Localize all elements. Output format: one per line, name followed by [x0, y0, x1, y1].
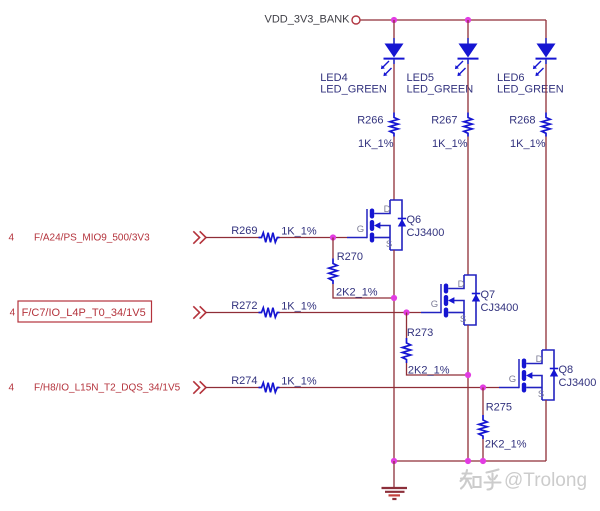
resistor R272: [259, 308, 280, 318]
svg-text:CJ3400: CJ3400: [559, 377, 597, 389]
resistor R266: [390, 113, 398, 137]
junction R270 / Q6 source: [391, 295, 397, 301]
svg-text:1K_1%: 1K_1%: [281, 376, 317, 388]
resistor R275: [479, 388, 487, 462]
label LED4 LED_GREEN: [320, 72, 387, 95]
label Q8 CJ3400: [559, 364, 597, 389]
svg-text:S: S: [538, 389, 544, 400]
junction gate row 2: [403, 309, 409, 315]
svg-text:R268: R268: [509, 114, 535, 126]
resistor R268: [542, 113, 550, 137]
svg-text:G: G: [509, 374, 516, 385]
svg-text:CJ3400: CJ3400: [407, 227, 445, 239]
LED LED4: [381, 38, 405, 76]
svg-text:4: 4: [9, 383, 15, 394]
transistor Q7 CJ3400: [421, 275, 480, 325]
svg-text:R274: R274: [231, 375, 257, 387]
label R272 1K_1%: [231, 300, 317, 313]
svg-text:R270: R270: [337, 251, 363, 263]
svg-text:VDD_3V3_BANK: VDD_3V3_BANK: [265, 14, 351, 26]
LED LED6: [533, 38, 557, 76]
label R270 2K2_1%: [336, 251, 378, 299]
transistor Q6 CJ3400: [347, 200, 406, 250]
label R266 1K_1%: [357, 114, 394, 150]
svg-text:D: D: [384, 204, 391, 215]
svg-text:F/C7/IO_L4P_T0_34/1V5: F/C7/IO_L4P_T0_34/1V5: [22, 307, 146, 319]
net label F/C7/IO_L4P_T0_34/1V5: [10, 301, 152, 322]
label LED6 LED_GREEN: [497, 72, 564, 95]
svg-text:LED_GREEN: LED_GREEN: [320, 83, 387, 95]
svg-text:S: S: [386, 239, 392, 250]
svg-text:G: G: [357, 224, 364, 235]
svg-text:F/A24/PS_MIO9_500/3V3: F/A24/PS_MIO9_500/3V3: [34, 233, 150, 244]
wire port to R274: [206, 387, 259, 389]
wire port to R272: [206, 312, 259, 314]
port F/A24/PS_MIO9_500/3V3: [193, 231, 206, 243]
junction top rail / LED5 anode: [465, 17, 471, 23]
wire LED6 anode: [545, 20, 547, 38]
resistor R270: [329, 238, 394, 299]
wire LED5 cathode: [467, 64, 469, 113]
svg-text:R266: R266: [357, 114, 383, 126]
svg-text:2K2_1%: 2K2_1%: [485, 439, 527, 451]
watermark: [461, 470, 588, 492]
net label F/A24/PS_MIO9_500/3V3: [9, 233, 151, 244]
port F/C7/IO_L4P_T0_34/1V5: [193, 306, 206, 318]
junction GND rail / Q7 source: [465, 458, 471, 464]
svg-text:R275: R275: [486, 401, 512, 413]
svg-text:Q6: Q6: [407, 214, 422, 226]
wire port to R269: [206, 237, 259, 239]
svg-text:R273: R273: [407, 327, 433, 339]
transistor Q8 CJ3400: [499, 350, 558, 400]
junction R273 / Q7 source: [465, 372, 471, 378]
junction GND rail / ground tap: [391, 458, 397, 464]
wire top rail: [361, 19, 547, 21]
junction gate row 3: [480, 384, 486, 390]
wire R272 to gate: [280, 312, 422, 314]
wire R268 to Q8 drain: [545, 137, 547, 351]
junction GND rail / R275: [480, 458, 486, 464]
wire R274 to gate: [280, 387, 500, 389]
svg-text:1K_1%: 1K_1%: [432, 138, 468, 150]
svg-text:CJ3400: CJ3400: [481, 302, 519, 314]
svg-text:1K_1%: 1K_1%: [281, 301, 317, 313]
junction top rail / LED4 anode: [391, 17, 397, 23]
svg-text:LED_GREEN: LED_GREEN: [497, 83, 564, 95]
svg-text:LED4: LED4: [320, 72, 348, 84]
svg-text:2K2_1%: 2K2_1%: [336, 287, 378, 299]
terminal VDD_3V3_BANK: [352, 16, 360, 24]
wire GND rail: [394, 460, 546, 462]
svg-text:F/H8/IO_L15N_T2_DQS_34/1V5: F/H8/IO_L15N_T2_DQS_34/1V5: [34, 383, 181, 394]
label R267 1K_1%: [431, 114, 468, 150]
svg-text:G: G: [431, 299, 438, 310]
wire Q6 source to GND rail: [393, 250, 395, 461]
svg-text:LED5: LED5: [407, 72, 435, 84]
svg-text:R269: R269: [231, 225, 257, 237]
label R274 1K_1%: [231, 375, 317, 388]
resistor R269: [259, 233, 280, 243]
svg-text:4: 4: [10, 308, 16, 319]
svg-text:1K_1%: 1K_1%: [358, 138, 394, 150]
svg-text:LED_GREEN: LED_GREEN: [407, 83, 474, 95]
port F/H8/IO_L15N_T2_DQS_34/1V5: [193, 381, 206, 393]
resistor R273: [402, 313, 468, 376]
resistor R274: [259, 383, 280, 393]
wire LED4 anode: [393, 20, 395, 38]
svg-text:@Trolong: @Trolong: [504, 470, 587, 491]
svg-text:4: 4: [9, 233, 15, 244]
label R269 1K_1%: [231, 225, 317, 238]
label Q7 CJ3400: [481, 289, 519, 314]
LED LED5: [455, 38, 479, 76]
label R275 2K2_1%: [485, 401, 527, 450]
svg-text:2K2_1%: 2K2_1%: [408, 365, 450, 377]
wire Q7 source to GND rail: [467, 325, 469, 461]
label R268 1K_1%: [509, 114, 546, 150]
svg-text:R267: R267: [431, 114, 457, 126]
label LED5 LED_GREEN: [407, 72, 474, 95]
label Q6 CJ3400: [407, 214, 445, 239]
wire LED5 anode: [467, 20, 469, 38]
wire R267 to Q7 drain: [467, 137, 469, 276]
junction gate row 1: [330, 234, 336, 240]
svg-text:S: S: [460, 314, 466, 325]
wire R269 to gate: [280, 237, 348, 239]
svg-text:Q8: Q8: [559, 364, 574, 376]
svg-text:1K_1%: 1K_1%: [281, 226, 317, 238]
svg-text:Q7: Q7: [481, 289, 496, 301]
net label F/H8/IO_L15N_T2_DQS_34/1V5: [9, 383, 181, 394]
ground: [382, 461, 408, 499]
wire Q8 source to GND rail: [545, 400, 547, 461]
svg-text:R272: R272: [231, 300, 257, 312]
svg-text:D: D: [458, 279, 465, 290]
svg-text:1K_1%: 1K_1%: [510, 138, 546, 150]
svg-text:D: D: [536, 354, 543, 365]
wire LED6 cathode: [545, 64, 547, 113]
wire LED4 cathode: [393, 64, 395, 113]
wire R266 to Q6 drain: [393, 137, 395, 201]
label R273 2K2_1%: [407, 327, 450, 377]
resistor R267: [464, 113, 472, 137]
svg-text:LED6: LED6: [497, 72, 525, 84]
